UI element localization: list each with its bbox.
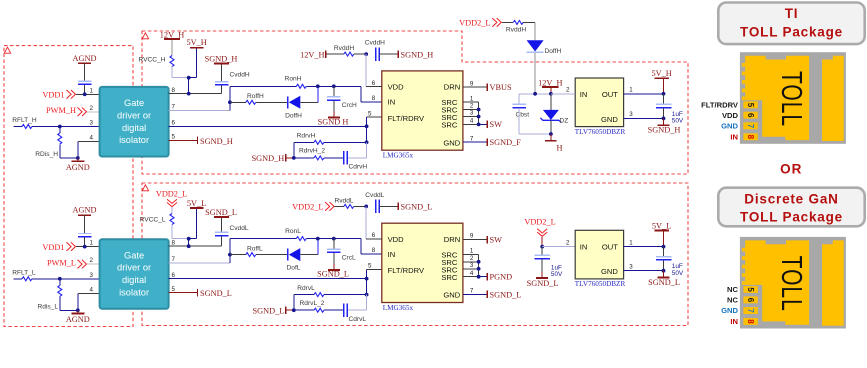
resistor RdrvL_2 bbox=[314, 308, 324, 312]
Discrete GaN package pin labels bbox=[721, 285, 738, 326]
resistor RFLT_H bbox=[22, 125, 32, 129]
wire GND stub (low) bbox=[463, 293, 487, 295]
wire CvddH to pin 8 row bbox=[221, 85, 223, 93]
wire RdrvL_2 to CdrvL bbox=[324, 309, 344, 311]
wire IN node to input cap bbox=[541, 247, 543, 255]
svg-text:RdrvH: RdrvH bbox=[297, 133, 316, 140]
wire RdrvL_2 row left bbox=[294, 309, 314, 311]
svg-text:2: 2 bbox=[566, 239, 570, 246]
power symbol AGND (bottom of input) bbox=[71, 160, 84, 162]
wire cap to GND node (low) bbox=[663, 260, 665, 270]
node junction pin8 bbox=[187, 92, 191, 96]
node junction SRC3 (low) bbox=[477, 267, 481, 271]
wire RdrvL row left bbox=[294, 294, 314, 296]
net label VBUS bbox=[486, 83, 488, 91]
wire CvddL to pin 8 row (low) bbox=[221, 236, 223, 246]
svg-text:RdrvL_2: RdrvL_2 bbox=[300, 300, 325, 307]
net label SGND_L at pin 5 bbox=[197, 289, 199, 297]
wire RdrvH_2 to CdrvH bbox=[324, 157, 344, 159]
svg-text:4: 4 bbox=[90, 287, 94, 294]
resistor Rdis_L (vertical) bbox=[59, 279, 61, 286]
node junction RonL/RoffL output bbox=[316, 237, 320, 241]
wire SRC pin2 stub bbox=[463, 109, 479, 111]
wire VDD1 to pin 1 (low) bbox=[76, 246, 100, 248]
svg-text:OUT: OUT bbox=[602, 242, 618, 251]
bottom low-side dashed boundary box bbox=[142, 183, 688, 326]
svg-text:8: 8 bbox=[746, 319, 755, 324]
wire pin 4 down bbox=[78, 140, 100, 142]
wire FLT vertical lower (low) bbox=[366, 295, 368, 311]
net label SGND_L (VDD chain) bbox=[397, 203, 399, 211]
svg-text:VDD2_L: VDD2_L bbox=[156, 189, 187, 198]
svg-text:SGND_L: SGND_L bbox=[205, 208, 237, 217]
svg-text:SRC: SRC bbox=[441, 273, 458, 282]
node junction RdrvL_2 left bbox=[292, 308, 296, 312]
wire RoffL row left bbox=[230, 254, 246, 256]
svg-text:5: 5 bbox=[172, 286, 176, 293]
svg-text:7: 7 bbox=[172, 104, 176, 111]
wire RonL row left bbox=[230, 238, 296, 240]
wire GND stub bbox=[463, 141, 487, 143]
wire to AGND bottom bbox=[77, 158, 79, 161]
svg-text:6: 6 bbox=[172, 120, 176, 127]
wire FLT vertical lower bbox=[366, 142, 368, 158]
node junction RdrvL right bbox=[365, 293, 369, 297]
svg-text:9: 9 bbox=[470, 80, 474, 87]
svg-text:7: 7 bbox=[470, 135, 474, 142]
svg-text:RoffH: RoffH bbox=[247, 93, 264, 100]
node junction SRC4 bbox=[477, 123, 481, 127]
wire SGND_H to Rdrv2 bbox=[287, 157, 294, 159]
ground symbol SGND_L under CrcL bbox=[328, 269, 340, 271]
svg-text:5: 5 bbox=[368, 263, 372, 270]
left dashed isolation boundary box bbox=[4, 46, 133, 327]
ground symbol SGND_H under CrcH bbox=[328, 117, 340, 119]
diode DoffH (bootstrap) bbox=[527, 40, 544, 51]
svg-text:DoffH: DoffH bbox=[545, 48, 562, 55]
svg-text:RonH: RonH bbox=[285, 76, 302, 83]
wire CrcL bottom bbox=[333, 253, 335, 263]
ground symbol SGND_L (5V_L cap) bbox=[658, 277, 670, 279]
svg-text:CvddL: CvddL bbox=[365, 192, 384, 199]
node junction VDD chain bbox=[364, 52, 368, 56]
svg-text:AGND: AGND bbox=[66, 163, 90, 172]
node junction RFLT/RDis bbox=[58, 125, 62, 129]
svg-text:9: 9 bbox=[470, 233, 474, 240]
node junction DZ/rail bottom bbox=[549, 132, 553, 136]
wire TLV GND to cap node bbox=[624, 117, 664, 119]
wire RoffH row left bbox=[230, 101, 246, 103]
svg-text:CrcH: CrcH bbox=[342, 102, 357, 109]
svg-text:SW: SW bbox=[490, 235, 503, 244]
node junction TLV GND (low) bbox=[662, 269, 666, 273]
svg-text:1: 1 bbox=[470, 95, 474, 102]
wire SRC pin1 stub bbox=[463, 101, 479, 103]
svg-text:SGND_L: SGND_L bbox=[200, 289, 232, 298]
node junction SRC2 bbox=[477, 108, 481, 112]
svg-text:8: 8 bbox=[746, 135, 755, 140]
svg-text:SGND_L: SGND_L bbox=[317, 270, 349, 279]
gate driver U1 (high side) teal box bbox=[100, 87, 169, 157]
capacitor 1uF 50V (TLV input) bbox=[534, 254, 550, 256]
svg-text:isolator: isolator bbox=[119, 288, 149, 298]
wire VDD junction down to LMG VDD bbox=[365, 54, 367, 86]
capacitor 1uF 50V (5V_H) bbox=[656, 103, 672, 105]
op-amp U5 LMG365x GaN FET (low side) bbox=[382, 223, 463, 302]
wire gate node to LMG IN (low) bbox=[318, 238, 361, 240]
svg-text:2: 2 bbox=[90, 257, 94, 264]
svg-text:4: 4 bbox=[470, 270, 474, 277]
svg-text:digital: digital bbox=[122, 123, 146, 133]
svg-text:GND: GND bbox=[601, 267, 618, 276]
resistor RoffL bbox=[246, 253, 256, 257]
svg-text:SGND_L: SGND_L bbox=[648, 278, 680, 287]
wire pin 5 stub (low) bbox=[169, 292, 197, 294]
wire RVCC_H to junction bbox=[171, 67, 173, 78]
wire pin7 vertical to rows (low) bbox=[229, 239, 231, 263]
svg-text:PGND: PGND bbox=[490, 273, 513, 282]
resistor RDis_H (vertical) bbox=[59, 127, 61, 134]
wire 12V rail bbox=[519, 93, 575, 95]
svg-text:IN: IN bbox=[388, 98, 396, 107]
diode DoffH bbox=[287, 96, 289, 108]
resistor RonL bbox=[296, 237, 306, 241]
svg-text:5V_H: 5V_H bbox=[651, 69, 671, 78]
node junction Roff joins Ron bbox=[228, 100, 232, 104]
node junction RdrvH right bbox=[365, 140, 369, 144]
resistor RvddH (bootstrap) bbox=[513, 20, 523, 24]
wire RonL to node bbox=[306, 238, 318, 240]
wire pin 7 row (low) bbox=[169, 262, 230, 264]
svg-text:LMG365x: LMG365x bbox=[383, 304, 414, 312]
wire LMG pin5 stub bbox=[367, 116, 382, 118]
wire SRC pin1 stub (low) bbox=[463, 253, 479, 255]
svg-text:GND: GND bbox=[443, 138, 460, 147]
node junction 12V/5V bbox=[187, 76, 191, 80]
regulator U6 TLV76050DBZR (low side) bbox=[575, 230, 623, 279]
svg-text:2: 2 bbox=[470, 103, 474, 110]
op-amp U2 LMG365x GaN FET (high side) bbox=[382, 71, 463, 150]
node junction Rdrv2 left bbox=[292, 156, 296, 160]
wire RFLT_L to pin 3 bbox=[32, 278, 100, 280]
wire C to pin1 node (low) bbox=[84, 237, 86, 246]
svg-text:7: 7 bbox=[470, 288, 474, 295]
wire CvddL to SGND_L bbox=[379, 205, 397, 207]
node junction RFLT_L/Rdis bbox=[58, 277, 62, 281]
wire RFLT_H left lead bbox=[14, 126, 23, 128]
svg-text:TLV76050DBZR: TLV76050DBZR bbox=[575, 280, 626, 288]
svg-text:1: 1 bbox=[629, 239, 633, 246]
capacitor CvddL (VDD) bbox=[375, 200, 377, 214]
svg-text:50V: 50V bbox=[672, 118, 684, 125]
svg-text:driver or: driver or bbox=[117, 263, 151, 273]
node junction SRC4 (low) bbox=[477, 275, 481, 279]
wire SRC pin3 stub bbox=[463, 116, 479, 118]
svg-text:SGND_H: SGND_H bbox=[648, 126, 681, 135]
wire OUT node to cap bbox=[663, 94, 665, 104]
svg-text:RDis_H: RDis_H bbox=[35, 151, 58, 158]
net label SGND_H (VDD chain) bbox=[397, 50, 399, 58]
svg-text:driver or: driver or bbox=[117, 110, 151, 120]
svg-text:RVCC_L: RVCC_L bbox=[140, 217, 166, 224]
node junction OUT bbox=[662, 92, 666, 96]
capacitor Cbst bbox=[512, 103, 526, 105]
svg-text:CrcL: CrcL bbox=[342, 254, 356, 261]
wire AGND to C (low) bbox=[84, 215, 86, 233]
wire DZ bottom bbox=[550, 120, 552, 134]
svg-text:AGND: AGND bbox=[73, 205, 97, 214]
resistor RoffH bbox=[246, 100, 256, 104]
wire GND node to SGND_H bbox=[663, 118, 665, 125]
svg-text:GND: GND bbox=[721, 306, 738, 315]
resistor RonH bbox=[296, 84, 306, 88]
resistor RVCC_L (vertical) bbox=[170, 214, 174, 225]
svg-text:SGND_H: SGND_H bbox=[401, 50, 434, 59]
svg-text:digital: digital bbox=[122, 275, 146, 285]
svg-text:5: 5 bbox=[746, 103, 755, 108]
wire RdrvL row right bbox=[324, 294, 367, 296]
svg-text:DRN: DRN bbox=[444, 235, 460, 244]
svg-text:TOLL Package: TOLL Package bbox=[740, 210, 843, 225]
wire TLV GND to cap node (low) bbox=[624, 270, 664, 272]
svg-text:1: 1 bbox=[90, 87, 94, 94]
wire PWM_H to pin 2 bbox=[87, 111, 100, 113]
capacitor VDD1 bypass (top-left) bbox=[78, 80, 92, 82]
svg-text:VDD2_L: VDD2_L bbox=[292, 203, 323, 212]
svg-text:RVCC_H: RVCC_H bbox=[139, 57, 166, 64]
wire RoffH to diode bbox=[256, 101, 288, 103]
wire VDD2_L to RvddH bbox=[502, 21, 513, 23]
svg-text:FLT/RDRV: FLT/RDRV bbox=[701, 101, 739, 110]
wire VDD2_L to RVCC_L bbox=[171, 207, 173, 214]
node junction DoffH/rail bbox=[533, 92, 537, 96]
net label PGND bbox=[486, 273, 488, 281]
capacitor VDD1 bypass (low) bbox=[78, 233, 92, 235]
svg-text:3: 3 bbox=[90, 272, 94, 279]
node junction pin8 (low) bbox=[187, 244, 191, 248]
node junction FLT/pin6 row bbox=[365, 124, 369, 128]
node junction pin4/RDis bbox=[76, 156, 80, 160]
TI TOLL package drawing bbox=[740, 52, 846, 144]
svg-text:PWM_L: PWM_L bbox=[47, 258, 76, 267]
svg-text:5: 5 bbox=[746, 287, 755, 292]
wire bottom rail bbox=[519, 133, 551, 135]
svg-text:SW: SW bbox=[490, 120, 503, 129]
svg-text:VDD2_L: VDD2_L bbox=[459, 19, 490, 28]
power symbol AGND (bottom of low input) bbox=[71, 313, 84, 315]
wire SGND_L to CvddL bbox=[221, 218, 223, 232]
wire cap to GND node bbox=[663, 108, 665, 118]
wire 5V_L down to junction bbox=[196, 209, 198, 239]
wire RFLT_H to pin 3 bbox=[32, 126, 100, 128]
node junction pin4/Rdis (low) bbox=[76, 308, 80, 312]
svg-text:VDD: VDD bbox=[722, 111, 739, 120]
wire Rdis bottom to AGND node (low) bbox=[60, 309, 78, 311]
wire 5V_H to OUT node bbox=[663, 79, 665, 94]
node junction TLV IN (low) bbox=[540, 245, 544, 249]
capacitor CrcH bbox=[327, 96, 341, 98]
wire FLT vertical (low) bbox=[366, 270, 368, 295]
wire RVCC_L to junction (low) bbox=[171, 225, 173, 239]
svg-text:5V_L: 5V_L bbox=[652, 221, 671, 230]
svg-text:8: 8 bbox=[372, 95, 376, 102]
wire RvddL to junction bbox=[354, 205, 366, 207]
svg-text:SGND_L: SGND_L bbox=[401, 203, 433, 212]
net label SW (low DRN) bbox=[486, 236, 488, 244]
svg-text:IN: IN bbox=[388, 250, 396, 259]
wire 12V_H to RVCC_H bbox=[171, 40, 173, 56]
wire 12V_H bar to rail bbox=[550, 88, 552, 94]
svg-text:GND: GND bbox=[443, 291, 460, 300]
svg-text:GND: GND bbox=[601, 115, 618, 124]
wire junction to pin 8 row (low) bbox=[188, 239, 190, 247]
svg-text:TOLL: TOLL bbox=[775, 256, 807, 312]
svg-text:Gate: Gate bbox=[124, 250, 144, 260]
svg-text:TI: TI bbox=[785, 6, 799, 21]
svg-text:7: 7 bbox=[746, 308, 755, 313]
svg-text:5: 5 bbox=[368, 110, 372, 117]
svg-text:Rdis_L: Rdis_L bbox=[37, 303, 58, 310]
wire SGND_H to CvddH bbox=[221, 64, 223, 81]
Discrete GaN TOLL package drawing bbox=[740, 237, 846, 329]
svg-text:CdrvH: CdrvH bbox=[349, 164, 368, 171]
bottom box corner triangle marker bbox=[142, 185, 148, 191]
wire 5V_L to OUT node bbox=[663, 232, 665, 247]
node junction CrcH bbox=[332, 84, 336, 88]
wire RvddH to junction bbox=[354, 53, 366, 55]
svg-text:6: 6 bbox=[746, 298, 755, 303]
svg-text:SGND H: SGND H bbox=[318, 117, 349, 126]
wire SRC pin4 stub (low) bbox=[463, 276, 479, 278]
svg-text:SGND_L: SGND_L bbox=[252, 306, 284, 315]
svg-text:RdrvH_2: RdrvH_2 bbox=[299, 148, 325, 155]
left box corner triangle marker bbox=[4, 47, 10, 53]
node junction Ron/Roff output bbox=[316, 84, 320, 88]
svg-text:IN: IN bbox=[730, 317, 738, 326]
svg-text:4: 4 bbox=[90, 134, 94, 141]
svg-text:RvddL: RvddL bbox=[334, 197, 353, 204]
node junction SRC2 (low) bbox=[477, 260, 481, 264]
capacitor CvddL bbox=[215, 231, 229, 233]
wire RoffL to diode bbox=[256, 254, 288, 256]
resistor RdrvH bbox=[314, 140, 324, 144]
wire RdrvH row right bbox=[324, 141, 367, 143]
wire junction to pin 8 row bbox=[188, 78, 190, 94]
svg-text:4: 4 bbox=[470, 118, 474, 125]
wire pin 6 long row to FLT node bbox=[169, 125, 367, 127]
svg-text:12V_H: 12V_H bbox=[300, 50, 324, 59]
svg-text:IN: IN bbox=[580, 90, 588, 99]
svg-text:Cbst: Cbst bbox=[516, 112, 530, 119]
wire CrcL top bbox=[333, 239, 335, 249]
wire C to pin1 node bbox=[84, 85, 86, 94]
svg-text:SGND_L: SGND_L bbox=[527, 279, 559, 288]
node junction pin1 (low) bbox=[83, 245, 87, 249]
wire DRN stub (low) bbox=[463, 239, 487, 241]
resistor RFLT_L bbox=[22, 277, 32, 281]
wire diode to vertical (low) bbox=[300, 254, 318, 256]
zener diode DZ bbox=[543, 110, 559, 120]
wire PWM_L to pin 2 bbox=[87, 263, 100, 265]
wire Cbst top bbox=[518, 94, 520, 104]
svg-text:3: 3 bbox=[629, 263, 633, 270]
svg-text:6: 6 bbox=[172, 272, 176, 279]
wire rail to TLV IN bbox=[551, 93, 575, 95]
wire pin7 vertical to Roff/Ron rows bbox=[229, 86, 231, 110]
svg-text:AGND: AGND bbox=[73, 54, 97, 63]
wire CrcH top bbox=[333, 86, 335, 96]
svg-text:Gate: Gate bbox=[124, 98, 144, 108]
wire GND node to SGND_L bbox=[663, 271, 665, 278]
node junction VDD chain (low) bbox=[364, 205, 368, 209]
svg-text:CdrvL: CdrvL bbox=[349, 316, 367, 323]
wire VDD2_L to RvddL bbox=[335, 205, 344, 207]
svg-text:2: 2 bbox=[90, 105, 94, 112]
wire SRC pin3 stub (low) bbox=[463, 268, 479, 270]
resistor RvddH bbox=[344, 52, 354, 56]
wire RdrvH_2 row left bbox=[294, 157, 314, 159]
wire RDis bottom to AGND node bbox=[60, 157, 78, 159]
capacitor CvddH bbox=[215, 81, 229, 83]
wire LMG pin5 stub (low) bbox=[367, 269, 382, 271]
wire TLV OUT to 5V node (low) bbox=[624, 246, 664, 248]
net label SGND_H at pin 5 bbox=[197, 137, 199, 145]
svg-text:3: 3 bbox=[629, 111, 633, 118]
svg-text:NC: NC bbox=[727, 296, 738, 305]
node junction TLV GND bbox=[662, 117, 666, 121]
svg-text:2: 2 bbox=[470, 255, 474, 262]
svg-text:3: 3 bbox=[470, 262, 474, 269]
svg-text:AGND: AGND bbox=[66, 315, 90, 324]
svg-text:8: 8 bbox=[172, 87, 176, 94]
wire pin 8 row (low) bbox=[169, 245, 222, 247]
svg-text:SGND_F: SGND_F bbox=[490, 138, 522, 147]
svg-text:TOLL: TOLL bbox=[775, 71, 807, 127]
node junction SRC3 bbox=[477, 115, 481, 119]
net label SGND_F bbox=[486, 138, 488, 146]
node junction RoffL joins bbox=[228, 253, 232, 257]
wire Cbst bottom bbox=[518, 108, 520, 134]
svg-text:6: 6 bbox=[372, 80, 376, 87]
svg-text:LMG365x: LMG365x bbox=[383, 152, 414, 160]
wire SRC to PGND bbox=[479, 276, 487, 278]
svg-text:8: 8 bbox=[372, 247, 376, 254]
svg-text:5: 5 bbox=[172, 134, 176, 141]
wire RdrvH row left bbox=[294, 141, 314, 143]
svg-text:isolator: isolator bbox=[119, 135, 149, 145]
svg-text:FLT/RDRV: FLT/RDRV bbox=[388, 266, 425, 275]
svg-text:DofL: DofL bbox=[287, 265, 301, 272]
resistor RvddL bbox=[344, 204, 354, 208]
wire pin 4 down (low) bbox=[78, 293, 100, 295]
wire RdrvL left vertical bbox=[293, 295, 295, 311]
net label SGND_L at LMG GND bbox=[486, 291, 488, 299]
wire pin 7 row bbox=[169, 110, 230, 112]
wire OUT node to cap (low) bbox=[663, 247, 665, 257]
node junction OUT (low) bbox=[662, 245, 666, 249]
svg-text:VDD1: VDD1 bbox=[42, 91, 64, 100]
wire SRC bus vertical bbox=[478, 102, 480, 124]
net label H (below DZ) bbox=[550, 134, 552, 141]
ground symbol SGND_L (input cap) bbox=[536, 277, 548, 279]
svg-text:IN: IN bbox=[730, 132, 738, 141]
svg-text:5V_L: 5V_L bbox=[187, 199, 206, 208]
node junction pin1/AGND cap bbox=[83, 92, 87, 96]
wire pin 8 row bbox=[169, 93, 222, 95]
svg-text:50V: 50V bbox=[551, 271, 563, 278]
svg-text:OR: OR bbox=[780, 162, 802, 177]
node junction VDD2/5V (low) bbox=[187, 237, 191, 241]
